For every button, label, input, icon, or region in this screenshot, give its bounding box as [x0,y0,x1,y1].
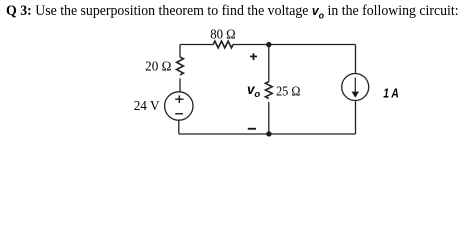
svg-text:20 Ω: 20 Ω [145,59,171,74]
svg-text:80 Ω: 80 Ω [210,26,236,41]
svg-text:25 Ω: 25 Ω [276,84,300,99]
svg-text:1 A: 1 A [383,86,399,101]
svg-text:24 V: 24 V [134,98,160,113]
svg-text:o: o [254,89,260,100]
